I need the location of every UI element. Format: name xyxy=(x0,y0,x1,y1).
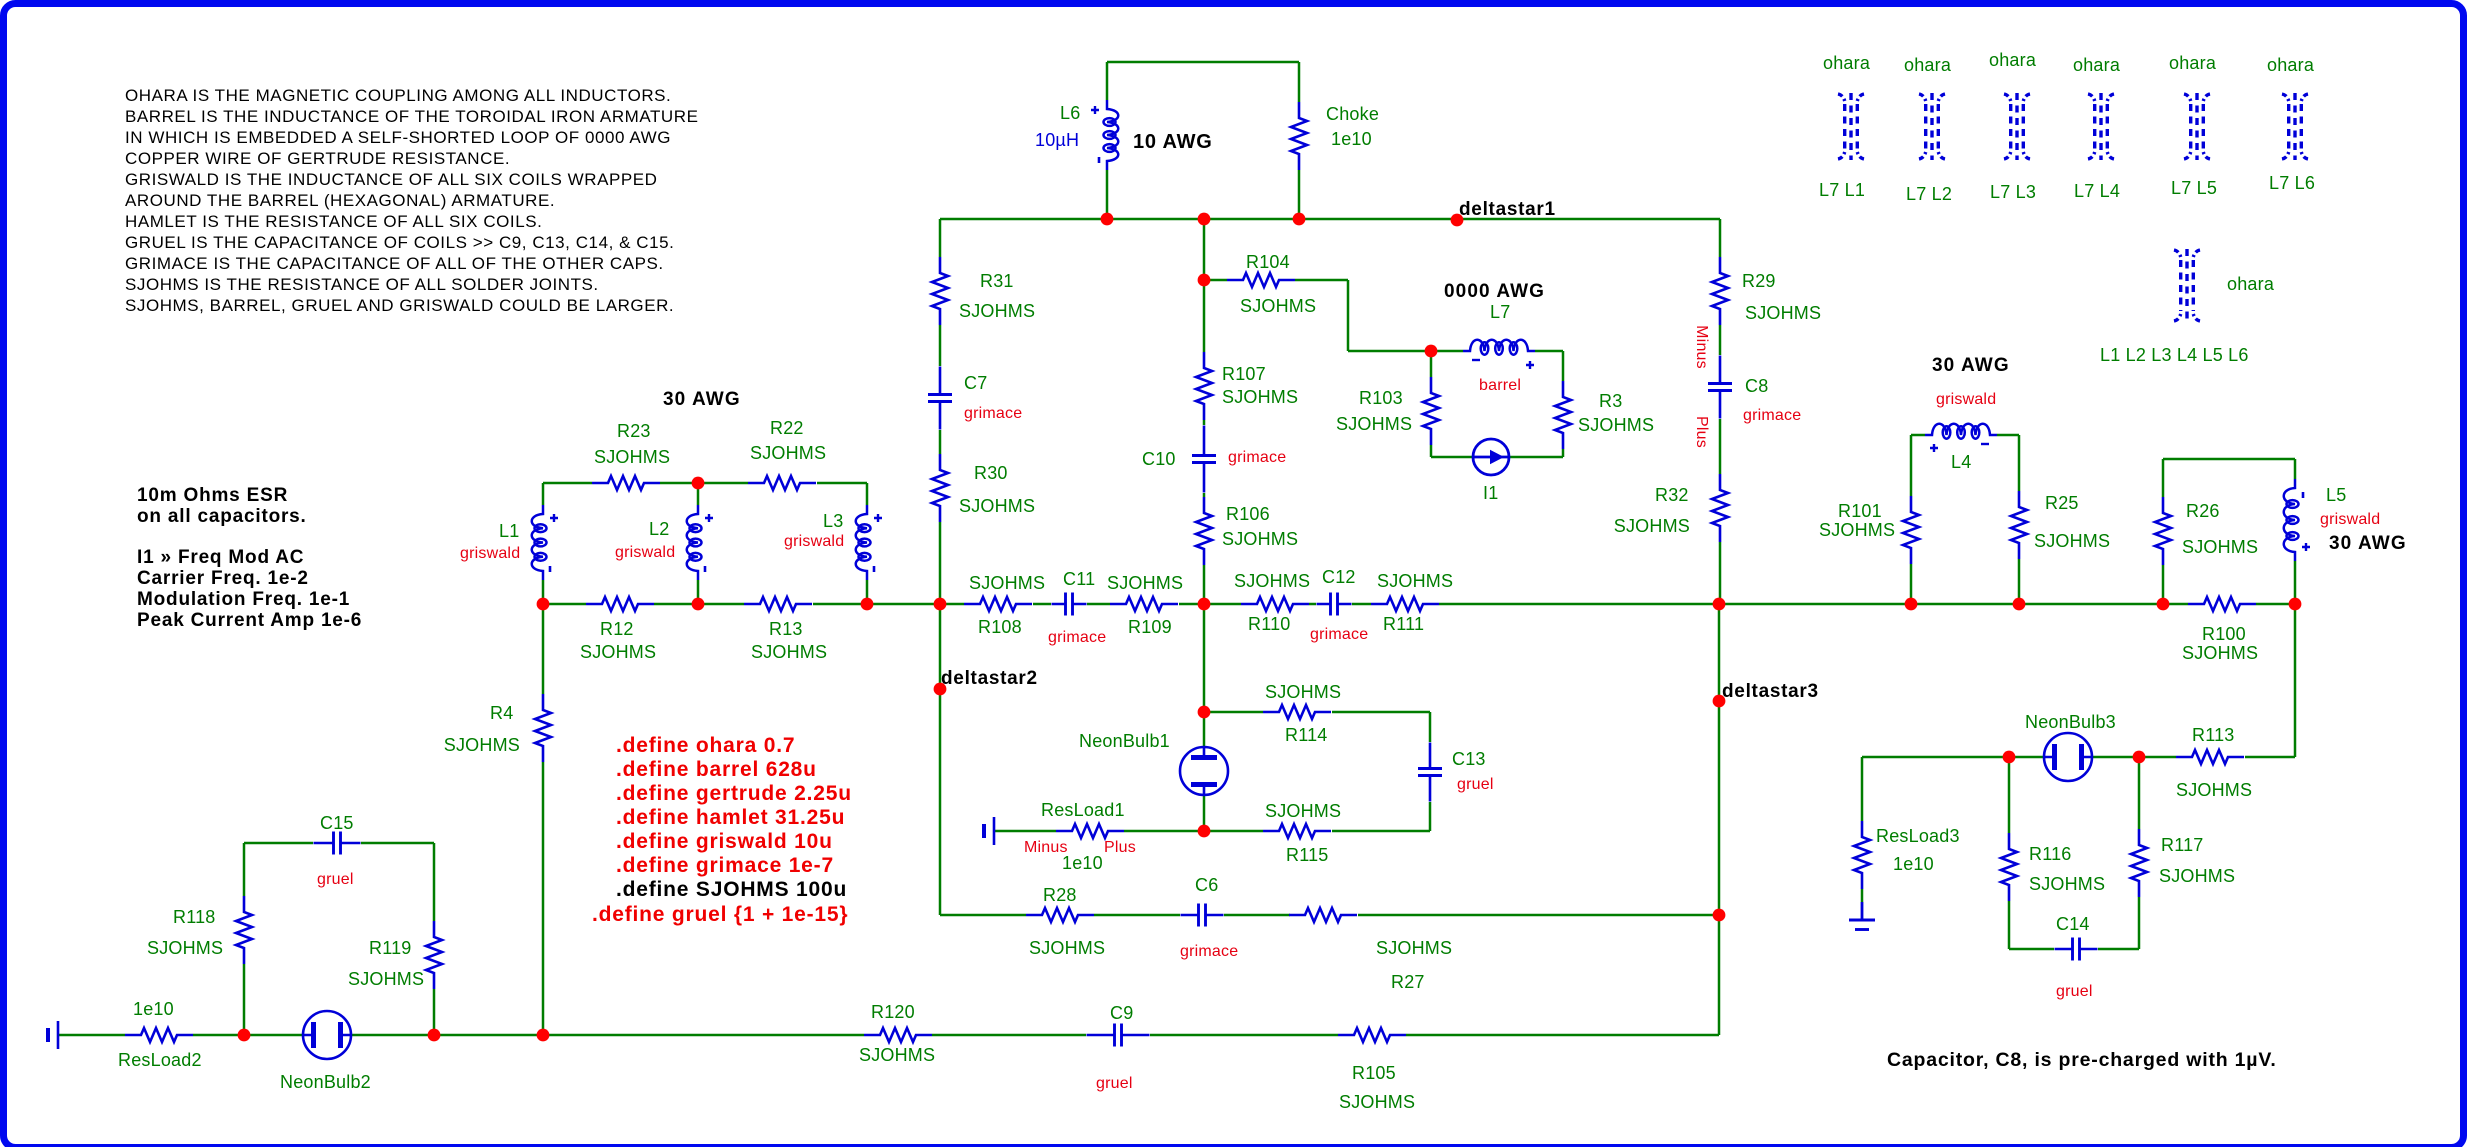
inductor L7 xyxy=(1463,302,1535,394)
wire R114-C13-R115 loop xyxy=(1204,712,1430,831)
coupling K7 ohara all xyxy=(2100,249,2275,365)
svg-text:SJOHMS, BARREL, GRUEL AND GRIS: SJOHMS, BARREL, GRUEL AND GRISWALD COULD… xyxy=(125,296,674,315)
svg-text:BARREL IS THE INDUCTANCE OF TH: BARREL IS THE INDUCTANCE OF THE TOROIDAL… xyxy=(125,107,698,126)
svg-text:Choke: Choke xyxy=(1326,104,1379,124)
wire L1-L2-L3 top xyxy=(543,483,867,604)
resistor R110 xyxy=(1234,571,1310,634)
wire ResLoad1 row xyxy=(994,830,1204,833)
svg-text:R117: R117 xyxy=(2161,835,2204,855)
svg-text:R109: R109 xyxy=(1128,617,1172,637)
svg-text:griswald: griswald xyxy=(1936,391,1996,408)
svg-text:NeonBulb3: NeonBulb3 xyxy=(2025,712,2116,732)
inductor L5 xyxy=(2284,479,2381,561)
resistor R103 xyxy=(1336,377,1439,445)
svg-text:R27: R27 xyxy=(1391,972,1425,992)
svg-text:gruel: gruel xyxy=(1457,776,1494,793)
svg-text:IN WHICH IS EMBEDDED A SELF-SH: IN WHICH IS EMBEDDED A SELF-SHORTED LOOP… xyxy=(125,128,671,147)
inductor L1 xyxy=(460,505,558,580)
svg-text:ohara: ohara xyxy=(1823,53,1871,73)
svg-text:1e10: 1e10 xyxy=(1331,129,1372,149)
resistor R117 xyxy=(2131,829,2235,897)
resistor R111 xyxy=(1371,571,1453,634)
resistor R23 xyxy=(592,421,670,490)
current source I1 xyxy=(1473,439,1509,503)
resistor R32 xyxy=(1614,474,1728,542)
svg-text:30 AWG: 30 AWG xyxy=(1932,355,2010,376)
svg-text:SJOHMS: SJOHMS xyxy=(1819,520,1895,540)
inductor L2 xyxy=(615,505,713,580)
svg-text:griswald: griswald xyxy=(784,533,844,550)
svg-text:HAMLET IS THE RESISTANCE OF AL: HAMLET IS THE RESISTANCE OF ALL SIX COIL… xyxy=(125,212,542,231)
resistor R116 xyxy=(2001,833,2105,901)
wire R101-L4-R25 loop xyxy=(1911,435,2019,604)
resistor R27 xyxy=(1289,908,1452,992)
svg-text:SJOHMS: SJOHMS xyxy=(1029,938,1105,958)
svg-text:grimace: grimace xyxy=(1228,449,1286,466)
svg-text:L6: L6 xyxy=(1060,103,1080,123)
svg-text:.define hamlet 31.25u: .define hamlet 31.25u xyxy=(616,806,845,829)
capacitor C13 xyxy=(1418,743,1494,802)
svg-text:OHARA IS THE MAGNETIC COUPLING: OHARA IS THE MAGNETIC COUPLING AMONG ALL… xyxy=(125,86,671,105)
label Minus C8 xyxy=(1693,325,1710,369)
note paragraph top-left xyxy=(125,86,698,315)
svg-text:C10: C10 xyxy=(1142,449,1176,469)
resistor R3 xyxy=(1555,381,1654,449)
svg-text:grimace: grimace xyxy=(1743,407,1801,424)
junction dot L1L2L3 top xyxy=(692,477,705,490)
svg-text:SJOHMS: SJOHMS xyxy=(969,573,1045,593)
resistor R29 xyxy=(1712,257,1821,325)
svg-text:COPPER WIRE OF GERTRUDE RESIST: COPPER WIRE OF GERTRUDE RESISTANCE. xyxy=(125,149,510,168)
svg-text:GRUEL IS THE CAPACITANCE OF CO: GRUEL IS THE CAPACITANCE OF COILS >> C9,… xyxy=(125,233,674,252)
wire NeonBulb1 column xyxy=(1203,604,1206,831)
note capacitor C8 precharged xyxy=(1887,1049,2277,1071)
svg-text:ResLoad3: ResLoad3 xyxy=(1876,826,1960,846)
svg-text:L4: L4 xyxy=(1951,452,1971,472)
svg-text:L7 L6: L7 L6 xyxy=(2269,173,2315,193)
resistor R104 xyxy=(1227,252,1316,316)
note I1 Freq Mod xyxy=(137,547,362,631)
svg-text:Peak Current Amp 1e-6: Peak Current Amp 1e-6 xyxy=(137,610,362,631)
svg-text:R120: R120 xyxy=(871,1002,915,1022)
svg-text:R4: R4 xyxy=(490,703,513,723)
svg-text:ohara: ohara xyxy=(2169,53,2217,73)
svg-text:30 AWG: 30 AWG xyxy=(2329,533,2407,554)
svg-text:SJOHMS: SJOHMS xyxy=(2176,780,2252,800)
svg-text:Capacitor, C8, is pre-charged: Capacitor, C8, is pre-charged with 1µV. xyxy=(1887,1049,2277,1071)
resistor R26 xyxy=(2155,497,2258,565)
svg-text:ohara: ohara xyxy=(1989,50,2037,70)
svg-text:R113: R113 xyxy=(2192,725,2235,745)
svg-text:Carrier Freq. 1e-2: Carrier Freq. 1e-2 xyxy=(137,568,309,589)
svg-text:R105: R105 xyxy=(1352,1063,1396,1083)
junction dots main bus xyxy=(537,598,2302,611)
svg-text:C6: C6 xyxy=(1195,875,1218,895)
wire R28-C6-R27 row xyxy=(940,914,1719,917)
svg-text:R115: R115 xyxy=(1286,845,1329,865)
svg-text:C7: C7 xyxy=(964,373,987,393)
svg-text:grimace: grimace xyxy=(1310,626,1368,643)
svg-text:SJOHMS: SJOHMS xyxy=(1234,571,1310,591)
svg-text:SJOHMS: SJOHMS xyxy=(751,642,827,662)
svg-text:grimace: grimace xyxy=(1048,629,1106,646)
svg-text:griswald: griswald xyxy=(2320,511,2380,528)
capacitor C11 xyxy=(1048,569,1106,646)
svg-text:SJOHMS: SJOHMS xyxy=(2182,537,2258,557)
svg-text:L7 L3: L7 L3 xyxy=(1990,182,2036,202)
svg-text:SJOHMS: SJOHMS xyxy=(1265,801,1341,821)
note 10m Ohms ESR xyxy=(137,485,307,527)
svg-text:.define gruel {1 + 1e-15}: .define gruel {1 + 1e-15} xyxy=(592,903,848,926)
svg-text:Modulation Freq. 1e-1: Modulation Freq. 1e-1 xyxy=(137,589,350,610)
resistor R12 xyxy=(580,597,656,662)
svg-text:10m Ohms ESR: 10m Ohms ESR xyxy=(137,485,288,506)
svg-text:grimace: grimace xyxy=(964,405,1022,422)
svg-text:R12: R12 xyxy=(600,619,634,639)
capacitor C6 xyxy=(1180,875,1238,960)
svg-text:SJOHMS: SJOHMS xyxy=(2034,531,2110,551)
junction dots bottom row xyxy=(238,1029,550,1042)
svg-text:ohara: ohara xyxy=(2227,274,2275,294)
resistor R115 xyxy=(1263,801,1341,865)
wire R107-C10-R106 column xyxy=(1203,219,1206,604)
resistor R4 xyxy=(444,694,551,762)
svg-text:R25: R25 xyxy=(2045,493,2079,513)
resistor R30 xyxy=(932,454,1035,522)
svg-text:SJOHMS: SJOHMS xyxy=(1222,387,1298,407)
coupling K1 ohara L7 L1 xyxy=(1819,53,1871,200)
svg-text:L1: L1 xyxy=(499,521,519,541)
svg-text:R107: R107 xyxy=(1222,364,1266,384)
svg-text:10 AWG: 10 AWG xyxy=(1133,131,1213,153)
svg-text:L7 L5: L7 L5 xyxy=(2171,178,2217,198)
svg-text:L7 L2: L7 L2 xyxy=(1906,184,1952,204)
label 30 AWG right xyxy=(2329,533,2407,554)
resistor R109 xyxy=(1107,573,1183,637)
svg-text:R108: R108 xyxy=(978,617,1022,637)
wire R116 column xyxy=(2008,757,2011,949)
svg-text:gruel: gruel xyxy=(317,871,354,888)
svg-text:NeonBulb2: NeonBulb2 xyxy=(280,1072,371,1092)
svg-text:10µH: 10µH xyxy=(1035,130,1079,150)
svg-text:SJOHMS: SJOHMS xyxy=(1376,938,1452,958)
note define block xyxy=(592,734,852,926)
svg-text:Plus: Plus xyxy=(1104,839,1136,856)
resistor ResLoad2 xyxy=(118,999,202,1070)
resistor ResLoad3 xyxy=(1854,821,1960,889)
svg-text:SJOHMS: SJOHMS xyxy=(147,938,223,958)
svg-text:.define griswald 10u: .define griswald 10u xyxy=(616,830,833,853)
svg-text:R13: R13 xyxy=(769,619,803,639)
wire R31-C7-R30 column xyxy=(939,219,942,604)
capacitor C7 xyxy=(928,367,1022,430)
svg-text:L7 L1: L7 L1 xyxy=(1819,180,1865,200)
resistor R106 xyxy=(1196,497,1298,565)
neon bulb NeonBulb3 xyxy=(2003,712,2146,781)
svg-text:1e10: 1e10 xyxy=(133,999,174,1019)
svg-text:griswald: griswald xyxy=(615,544,675,561)
svg-text:ResLoad2: ResLoad2 xyxy=(118,1050,202,1070)
resistor ResLoad1 xyxy=(1024,800,1136,873)
node deltastar1 xyxy=(1451,199,1556,226)
resistor R108 xyxy=(964,573,1045,637)
svg-text:SJOHMS: SJOHMS xyxy=(750,443,826,463)
coupling K5 ohara L7 L5 xyxy=(2169,53,2217,198)
resistor R105 xyxy=(1338,1028,1415,1112)
svg-text:R119: R119 xyxy=(369,938,412,958)
svg-text:.define gertrude 2.25u: .define gertrude 2.25u xyxy=(616,782,852,805)
coupling K3 ohara L7 L3 xyxy=(1989,50,2037,202)
label 30 AWG middle xyxy=(1932,355,2010,376)
wire L7 loop xyxy=(1431,351,1563,457)
resistor R25 xyxy=(2011,491,2110,559)
wire L5 to R113 column xyxy=(2294,604,2297,757)
svg-text:.define SJOHMS 100u: .define SJOHMS 100u xyxy=(616,878,847,901)
svg-text:.define ohara 0.7: .define ohara 0.7 xyxy=(616,734,795,757)
svg-text:griswald: griswald xyxy=(460,545,520,562)
wire L6-Choke top loop xyxy=(1107,62,1299,219)
svg-text:SJOHMS: SJOHMS xyxy=(1265,682,1341,702)
svg-text:gruel: gruel xyxy=(1096,1075,1133,1092)
svg-text:L7 L4: L7 L4 xyxy=(2074,181,2120,201)
svg-text:R28: R28 xyxy=(1043,885,1077,905)
svg-text:SJOHMS: SJOHMS xyxy=(1240,296,1316,316)
inductor L4 xyxy=(1925,391,1997,472)
battery ResLoad1 terminal xyxy=(984,817,994,845)
svg-text:R106: R106 xyxy=(1226,504,1270,524)
resistor Choke xyxy=(1291,102,1379,170)
svg-text:L5: L5 xyxy=(2326,485,2346,505)
capacitor C8 xyxy=(1708,356,1801,425)
resistor R101 xyxy=(1819,496,1919,564)
wire bottom row xyxy=(58,915,1719,1035)
label Plus C8 xyxy=(1693,416,1710,448)
svg-text:R116: R116 xyxy=(2029,844,2072,864)
svg-text:R31: R31 xyxy=(980,271,1014,291)
label 0000 AWG xyxy=(1444,281,1545,302)
svg-text:GRISWALD IS THE INDUCTANCE OF: GRISWALD IS THE INDUCTANCE OF ALL SIX CO… xyxy=(125,170,657,189)
svg-text:R30: R30 xyxy=(974,463,1008,483)
svg-text:SJOHMS: SJOHMS xyxy=(1614,516,1690,536)
svg-text:SJOHMS: SJOHMS xyxy=(2159,866,2235,886)
inductor L6 xyxy=(1035,100,1118,170)
capacitor C14 xyxy=(2055,914,2098,1000)
junction dot R104 xyxy=(1198,274,1211,287)
svg-text:.define barrel 628u: .define barrel 628u xyxy=(616,758,817,781)
resistor R22 xyxy=(748,418,826,490)
wire deltastar1 top bus xyxy=(940,218,1720,221)
svg-text:R29: R29 xyxy=(1742,271,1776,291)
svg-text:C8: C8 xyxy=(1745,376,1768,396)
svg-text:SJOHMS: SJOHMS xyxy=(959,301,1035,321)
svg-text:SJOHMS: SJOHMS xyxy=(1339,1092,1415,1112)
svg-text:.define grimace 1e-7: .define grimace 1e-7 xyxy=(616,854,834,877)
wire R26-L5 loop xyxy=(2163,459,2295,604)
wire C15-R118-R119 loop xyxy=(244,843,434,1035)
svg-text:ohara: ohara xyxy=(1904,55,1952,75)
svg-text:grimace: grimace xyxy=(1180,943,1238,960)
svg-text:SJOHMS: SJOHMS xyxy=(2182,643,2258,663)
svg-text:I1 » Freq Mod AC: I1 » Freq Mod AC xyxy=(137,547,304,568)
svg-text:SJOHMS: SJOHMS xyxy=(959,496,1035,516)
battery ResLoad2 terminal xyxy=(48,1021,58,1049)
svg-text:ohara: ohara xyxy=(2073,55,2121,75)
svg-text:SJOHMS: SJOHMS xyxy=(1377,571,1453,591)
coupling K2 ohara L7 L2 xyxy=(1904,55,1952,204)
neon bulb NeonBulb2 xyxy=(280,1011,371,1092)
svg-text:C14: C14 xyxy=(2056,914,2090,934)
svg-text:R26: R26 xyxy=(2186,501,2220,521)
junction dots top bus xyxy=(1101,213,1306,226)
resistor R31 xyxy=(932,257,1035,325)
svg-text:1e10: 1e10 xyxy=(1893,854,1934,874)
node deltastar2 xyxy=(934,668,1038,695)
wire deltastar2 column xyxy=(939,604,942,915)
svg-text:gruel: gruel xyxy=(2056,983,2093,1000)
svg-text:0000 AWG: 0000 AWG xyxy=(1444,281,1545,302)
svg-text:SJOHMS: SJOHMS xyxy=(1745,303,1821,323)
svg-text:C9: C9 xyxy=(1110,1003,1133,1023)
capacitor C10 xyxy=(1142,426,1286,493)
svg-text:SJOHMS: SJOHMS xyxy=(1578,415,1654,435)
ground ResLoad3 xyxy=(1849,902,1875,930)
svg-text:R104: R104 xyxy=(1246,252,1290,272)
capacitor C15 xyxy=(314,813,361,888)
wire R29-C8-R32 column xyxy=(1719,219,1722,604)
svg-text:R110: R110 xyxy=(1248,614,1291,634)
svg-text:AROUND THE BARREL (HEXAGONAL): AROUND THE BARREL (HEXAGONAL) ARMATURE. xyxy=(125,191,555,210)
junction dot L7 xyxy=(1425,345,1438,358)
resistor R118 xyxy=(147,896,252,964)
resistor R107 xyxy=(1196,352,1298,420)
wire C14 row xyxy=(2009,948,2139,951)
resistor R120 xyxy=(859,1002,935,1065)
label 30 AWG left xyxy=(663,389,741,410)
inductor L3 xyxy=(784,505,882,580)
svg-text:ohara: ohara xyxy=(2267,55,2315,75)
wire R104 branch xyxy=(1204,280,1431,351)
wire ResLoad3 column xyxy=(1861,757,1864,902)
svg-text:R118: R118 xyxy=(173,907,216,927)
resistor R114 xyxy=(1263,682,1341,745)
svg-text:SJOHMS: SJOHMS xyxy=(348,969,424,989)
svg-text:L3: L3 xyxy=(823,511,843,531)
resistor R100 xyxy=(2182,597,2258,663)
capacitor C12 xyxy=(1310,567,1368,643)
svg-text:I1: I1 xyxy=(1483,483,1498,503)
svg-text:C12: C12 xyxy=(1322,567,1356,587)
resistor R28 xyxy=(1026,885,1105,958)
wire deltastar3 column xyxy=(1718,604,1721,915)
svg-text:C15: C15 xyxy=(320,813,354,833)
svg-text:NeonBulb1: NeonBulb1 xyxy=(1079,731,1170,751)
wire R4 column xyxy=(542,604,545,1035)
coupling K6 ohara L7 L6 xyxy=(2267,55,2315,193)
resistor R119 xyxy=(348,921,442,989)
svg-text:R23: R23 xyxy=(617,421,651,441)
svg-text:on all capacitors.: on all capacitors. xyxy=(137,506,307,527)
svg-text:L2: L2 xyxy=(649,519,669,539)
svg-text:Plus: Plus xyxy=(1693,416,1710,448)
label 10 AWG xyxy=(1133,131,1213,153)
svg-text:30 AWG: 30 AWG xyxy=(663,389,741,410)
svg-text:R103: R103 xyxy=(1359,388,1403,408)
resistor R13 xyxy=(744,597,827,662)
svg-text:deltastar3: deltastar3 xyxy=(1722,681,1819,702)
svg-text:L7: L7 xyxy=(1490,302,1510,322)
svg-text:C11: C11 xyxy=(1063,569,1095,589)
svg-text:barrel: barrel xyxy=(1479,377,1521,394)
svg-text:ResLoad1: ResLoad1 xyxy=(1041,800,1125,820)
coupling K4 ohara L7 L4 xyxy=(2073,55,2121,201)
svg-text:SJOHMS: SJOHMS xyxy=(580,642,656,662)
svg-text:Minus: Minus xyxy=(1693,325,1710,369)
neon bulb NeonBulb1 xyxy=(1079,706,1228,838)
svg-text:SJOHMS: SJOHMS xyxy=(1336,414,1412,434)
node deltastar3 xyxy=(1713,681,1819,921)
resistor R113 xyxy=(2176,725,2252,800)
svg-text:R22: R22 xyxy=(770,418,804,438)
svg-text:R100: R100 xyxy=(2202,624,2246,644)
wire R117 column xyxy=(2138,757,2141,949)
svg-text:R3: R3 xyxy=(1599,391,1622,411)
wire NeonBulb3 row xyxy=(1862,756,2295,759)
svg-text:SJOHMS: SJOHMS xyxy=(444,735,520,755)
svg-text:SJOHMS: SJOHMS xyxy=(1107,573,1183,593)
svg-text:R101: R101 xyxy=(1838,501,1882,521)
svg-text:SJOHMS IS THE RESISTANCE OF AL: SJOHMS IS THE RESISTANCE OF ALL SOLDER J… xyxy=(125,275,599,294)
svg-text:R32: R32 xyxy=(1655,485,1689,505)
svg-text:C13: C13 xyxy=(1452,749,1486,769)
svg-text:R111: R111 xyxy=(1383,614,1424,634)
svg-text:R114: R114 xyxy=(1285,725,1328,745)
svg-text:1e10: 1e10 xyxy=(1062,853,1103,873)
svg-text:SJOHMS: SJOHMS xyxy=(859,1045,935,1065)
svg-text:GRIMACE IS THE CAPACITANCE OF: GRIMACE IS THE CAPACITANCE OF ALL OF THE… xyxy=(125,254,664,273)
wire main bus xyxy=(543,603,2295,606)
svg-text:SJOHMS: SJOHMS xyxy=(1222,529,1298,549)
svg-text:SJOHMS: SJOHMS xyxy=(2029,874,2105,894)
svg-text:SJOHMS: SJOHMS xyxy=(594,447,670,467)
svg-text:L1 L2 L3 L4 L5 L6: L1 L2 L3 L4 L5 L6 xyxy=(2100,345,2249,365)
svg-text:deltastar1: deltastar1 xyxy=(1459,199,1556,220)
svg-text:deltastar2: deltastar2 xyxy=(941,668,1038,689)
capacitor C9 xyxy=(1087,1003,1150,1092)
